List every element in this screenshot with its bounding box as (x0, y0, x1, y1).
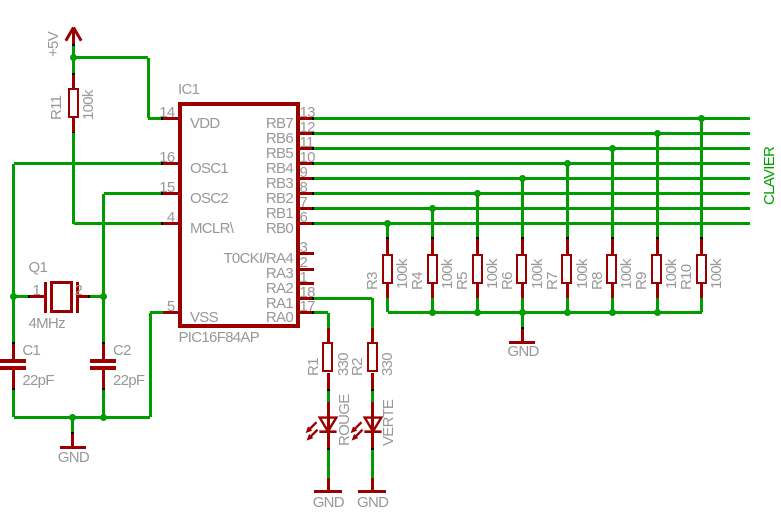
wire net RB4 (314, 162, 750, 165)
wire RB6 to R9 (656, 134, 659, 238)
label C2 (113, 343, 131, 358)
resistor R2 (367, 342, 378, 372)
pin number 12 (300, 120, 315, 135)
pin name RA3 (182, 266, 293, 281)
wire OSC2 down to crystal (102, 194, 105, 297)
junction R8 top (609, 145, 616, 152)
wire R4 to rail (431, 298, 434, 312)
wire C1 to ground rail (12, 390, 15, 417)
wire to pin 4 MCLR (74, 222, 163, 225)
pin name OSC1 (190, 161, 228, 176)
pin stub 5 (163, 311, 180, 314)
wire net RB6 (314, 132, 750, 135)
wire LED to GND (327, 450, 330, 478)
pin C2 top (102, 344, 105, 359)
resistor R7 (561, 254, 572, 284)
wire (72, 44, 75, 58)
pin GND (327, 478, 330, 490)
junction rail (654, 309, 661, 316)
pin LED anode (371, 402, 374, 433)
wire R10 to rail (700, 298, 703, 312)
supply +5V symbol (60, 25, 88, 47)
wire RB1 to R4 (431, 209, 434, 238)
pin name RA0 (182, 310, 293, 325)
value 100k R4 (440, 259, 455, 289)
resistor R9 (651, 254, 662, 284)
pin R8 bottom (611, 284, 614, 298)
junction R10 top (698, 115, 705, 122)
pin number 18 (300, 285, 315, 300)
label R3 (365, 272, 380, 290)
led D1 ROUGE (301, 413, 343, 441)
label ROUGE (337, 394, 352, 446)
crystal Q1 right electrode (76, 282, 79, 313)
label R8 (590, 272, 605, 290)
wire to pin 14 (148, 117, 163, 120)
resistor R4 (427, 254, 438, 284)
pin name RB5 (182, 146, 293, 161)
pin LED cathode (327, 433, 330, 448)
wire LED to GND (371, 450, 374, 478)
pin name RB4 (182, 161, 293, 176)
resistor R11 (68, 88, 79, 118)
junction R7 top (564, 160, 571, 167)
wire RB4 to R7 (566, 164, 569, 238)
pin stub 17 (298, 311, 312, 314)
value 4MHz (29, 316, 65, 331)
value 100k R5 (485, 259, 500, 289)
junction +5V node (70, 54, 77, 61)
pin LED cathode (371, 433, 374, 448)
pin number 11 (300, 135, 314, 150)
pin name RA2 (182, 281, 293, 296)
pin number 2 Q1 (75, 283, 83, 298)
label R1 (306, 358, 321, 376)
junction crystal right node (100, 293, 107, 300)
pin R5 top (476, 239, 479, 254)
wire net RB0 (314, 222, 750, 225)
pin R1 bottom (327, 373, 330, 390)
ground GND (middle) (509, 341, 535, 344)
pin R9 top (656, 239, 659, 254)
resistor R6 (516, 254, 527, 284)
pin name MCLR\ (190, 221, 233, 236)
pin R5 bottom (476, 284, 479, 298)
wire crystal pin 2 (90, 295, 104, 298)
led D2 VERTE (346, 413, 388, 441)
wire to crystal pin 1 (14, 295, 28, 298)
pin R2 top (371, 328, 374, 342)
wire pullup ground rail (388, 311, 702, 314)
label C1 (22, 343, 40, 358)
junction R3 top (384, 220, 391, 227)
label IC1 (178, 82, 199, 97)
value 100k R10 (709, 259, 724, 289)
pin Q1-1 lead (30, 295, 44, 298)
pin stub 6 (298, 222, 312, 225)
ic IC1 PIC16F84AP box (178, 102, 300, 329)
resistor R10 (696, 254, 707, 284)
pin R11 bottom (72, 118, 75, 133)
junction crystal left node (10, 293, 17, 300)
wire RB5 to R8 (611, 149, 614, 238)
junction C2 ground (100, 414, 107, 421)
pin stub 3 (298, 252, 314, 255)
wire OSC1 down to crystal (12, 164, 15, 297)
wire net RB7 (314, 117, 750, 120)
resistor R3 (382, 254, 393, 284)
pin GND (371, 478, 374, 490)
pin R10 bottom (700, 284, 703, 298)
value 100k R7 (575, 259, 590, 289)
wire RB3 to R6 (521, 179, 524, 238)
capacitor C1 (0, 359, 26, 363)
wire VSS down (149, 313, 152, 417)
pin C2 bottom (102, 370, 105, 388)
label GND middle (507, 344, 538, 359)
pin R11 top (72, 75, 75, 88)
wire R8 to rail (611, 298, 614, 312)
value 22pF C2 (113, 373, 144, 388)
wire rail to GND (521, 312, 524, 328)
label +5V (46, 32, 61, 57)
resistor R8 (606, 254, 617, 284)
crystal Q1 left electrode (44, 282, 47, 313)
wire RB7 to R10 (700, 118, 703, 238)
pin name RB0 (182, 221, 293, 236)
wire R3 to rail (386, 298, 389, 312)
pin stub 16 (163, 162, 180, 165)
wire C2 to ground rail (102, 390, 105, 417)
pin stub 1 (298, 282, 314, 285)
pin stub 14 (163, 117, 180, 120)
ground GND (ROUGE) (314, 490, 342, 493)
wire down to VDD (147, 58, 150, 118)
wire net RB2 (314, 192, 750, 195)
pin C1 bottom (12, 370, 15, 388)
pin stub 2 (298, 268, 314, 271)
wire R2 to LED (371, 391, 374, 402)
pin number 3 (300, 240, 308, 255)
junction R6 top (519, 175, 526, 182)
label GND ROUGE (313, 495, 344, 510)
wire RA0 to R1 (314, 311, 328, 314)
value 22pF C1 (22, 373, 53, 388)
label R9 (634, 272, 649, 290)
pin R6 top (521, 239, 524, 254)
pin R6 bottom (521, 284, 524, 298)
pin R4 top (431, 239, 434, 254)
pin R4 bottom (431, 284, 434, 298)
value 100k R9 (664, 259, 679, 289)
pin number 5 (148, 299, 175, 314)
wire RB0 to R3 (386, 224, 389, 238)
pin name RA1 (182, 296, 293, 311)
pin number 9 (300, 165, 308, 180)
pin stub 8 (298, 192, 312, 195)
pin Q1-2 lead (79, 295, 88, 298)
wire OSC1 horizontal (14, 162, 163, 165)
junction R4 top (429, 205, 436, 212)
label VERTE (381, 399, 396, 445)
pin R7 top (566, 239, 569, 254)
pin R1 top (327, 328, 330, 342)
pin number 4 (148, 210, 175, 225)
label R6 (500, 272, 515, 290)
pin stub 10 (298, 162, 312, 165)
label R7 (545, 272, 560, 290)
pin number 10 (300, 150, 315, 165)
wire to GND (71, 417, 74, 433)
wire VSS (150, 311, 163, 314)
junction R9 top (654, 130, 661, 137)
pin number 7 (300, 195, 308, 210)
pin name RB7 (182, 116, 293, 131)
wire to C1 (12, 297, 15, 342)
ground GND (VERTE) (358, 490, 386, 493)
wire R11 to MCLR row (72, 133, 75, 224)
label PIC16F84AP (179, 330, 260, 345)
wire R6 to rail (521, 298, 524, 312)
pin stub 11 (298, 147, 312, 150)
pin C1 top (12, 344, 15, 359)
junction rail (429, 309, 436, 316)
ground GND (left) (60, 446, 86, 449)
pin stub 9 (298, 177, 312, 180)
pin R7 bottom (566, 284, 569, 298)
label R2 (350, 358, 365, 376)
label GND left (58, 450, 89, 465)
pin number 1 Q1 (33, 283, 41, 298)
resistor R5 (472, 254, 483, 284)
pin R10 top (700, 239, 703, 254)
pin number 6 (300, 210, 308, 225)
pin name RB6 (182, 131, 293, 146)
wire RB2 to R5 (476, 194, 479, 238)
pin stub 13 (298, 117, 312, 120)
pin number 13 (300, 105, 315, 120)
pin R3 top (386, 239, 389, 254)
value 100k R8 (619, 259, 634, 289)
wire R5 to rail (476, 298, 479, 312)
pin name VSS (190, 310, 218, 325)
pin number 2 (300, 255, 308, 270)
wire down to R2 (371, 298, 374, 328)
pin name RB3 (182, 176, 293, 191)
label Q1 (29, 260, 48, 275)
wire down to R1 (327, 313, 330, 328)
pin name T0CKI/RA4 (182, 251, 293, 266)
junction GND stem (69, 414, 76, 421)
wire net RB1 (314, 207, 750, 210)
pin R9 bottom (656, 284, 659, 298)
label R11 (49, 96, 64, 120)
pin number 14 (148, 105, 175, 120)
wire OSC2 horizontal (104, 192, 163, 195)
label R4 (410, 272, 425, 290)
junction rail (519, 309, 526, 316)
pin GND (521, 329, 524, 342)
label GND VERTE (357, 495, 388, 510)
resistor R1 (322, 342, 333, 372)
label net CLAVIER (762, 147, 777, 205)
pin stub 12 (298, 132, 312, 135)
pin number 17 (300, 299, 315, 314)
label R5 (455, 272, 470, 290)
label R10 (679, 264, 694, 289)
value 100k R3 (395, 259, 410, 289)
wire ground rail left (14, 416, 150, 419)
pin number 8 (300, 180, 308, 195)
pin LED anode (327, 402, 330, 433)
capacitor C2 (90, 359, 116, 363)
wire R1 to LED (327, 391, 330, 402)
pin name RB1 (182, 206, 293, 221)
pin name OSC2 (190, 191, 228, 206)
wire R9 to rail (656, 298, 659, 312)
pin R3 bottom (386, 284, 389, 298)
value 100k R11 (81, 90, 96, 120)
pin stub 4 (163, 222, 180, 225)
pin number 16 (148, 150, 175, 165)
wire net RB3 (314, 177, 750, 180)
wire RA1 to R2 (314, 297, 372, 300)
junction rail (474, 309, 481, 316)
junction rail (564, 309, 571, 316)
value 330 R1 (336, 353, 351, 376)
wire to C2 (102, 297, 105, 342)
pin stub 18 (298, 297, 312, 300)
pin GND (71, 434, 74, 448)
wire R7 to rail (566, 298, 569, 312)
junction rail (609, 309, 616, 316)
pin stub 7 (298, 207, 312, 210)
pin R8 top (611, 239, 614, 254)
pin R2 bottom (371, 373, 374, 390)
pin number 1 (300, 270, 308, 285)
value 100k R6 (530, 259, 545, 289)
value 330 R2 (380, 353, 395, 376)
wire +5V to R11 (72, 58, 75, 75)
wire +5V rail (74, 56, 148, 59)
pin number 15 (148, 180, 175, 195)
crystal Q1 body (50, 281, 73, 313)
pin stub 15 (163, 192, 180, 195)
wire net RB5 (314, 147, 750, 150)
pin name RB2 (182, 191, 293, 206)
junction R5 top (474, 190, 481, 197)
pin name VDD (190, 116, 220, 131)
